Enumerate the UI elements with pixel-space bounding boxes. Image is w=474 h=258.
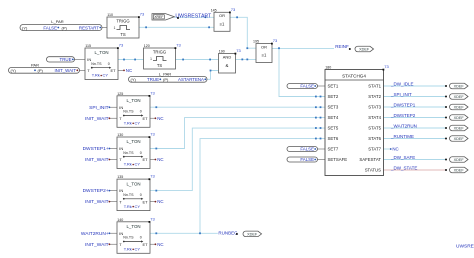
svg-text:INIT_WAIT: INIT_WAIT (85, 242, 109, 248)
svg-text:PAR: PAR (31, 62, 39, 67)
svg-text:NC: NC (392, 147, 398, 152)
svg-text:STAT7: STAT7 (368, 147, 381, 152)
svg-text:_DW_IDLE: _DW_IDLE (390, 81, 414, 86)
svg-text:135: 135 (117, 175, 123, 179)
svg-text:STAT3: STAT3 (368, 105, 381, 110)
svg-text:73: 73 (150, 174, 155, 179)
svg-text:73: 73 (176, 43, 181, 48)
svg-text:TRUE: TRUE (60, 57, 72, 62)
svg-text:INIT_WAIT: INIT_WAIT (85, 199, 109, 205)
svg-text:125: 125 (117, 92, 123, 96)
svg-text:(P): (P) (62, 25, 68, 30)
svg-text:SET5: SET5 (328, 126, 339, 131)
svg-text:73: 73 (150, 132, 155, 137)
svg-text:SPI_INIT: SPI_INIT (89, 105, 109, 111)
svg-text:NC: NC (126, 68, 132, 73)
svg-text:73: 73 (140, 12, 145, 17)
svg-text:STATUS: STATUS (365, 168, 381, 173)
svg-text:STATCHG4: STATCHG4 (342, 73, 366, 78)
svg-text:NC: NC (157, 116, 163, 121)
svg-text:190: 190 (219, 50, 225, 54)
svg-text:73: 73 (150, 216, 155, 221)
svg-text:73: 73 (231, 7, 236, 12)
svg-text:INIT_WAIT: INIT_WAIT (85, 157, 109, 163)
svg-text:115: 115 (85, 44, 91, 48)
svg-text:_WAIT2RUN: _WAIT2RUN (390, 123, 417, 128)
svg-text:STAT5: STAT5 (368, 126, 381, 131)
svg-text:DWSTEP2+: DWSTEP2+ (83, 188, 109, 194)
svg-text:INIT_WAIT: INIT_WAIT (85, 116, 109, 122)
svg-text:UWSRESTART: UWSRESTART (175, 14, 212, 20)
svg-text:_DWSTEP2: _DWSTEP2 (390, 113, 416, 118)
svg-text:RUNBEG: RUNBEG (218, 230, 238, 235)
svg-text:110: 110 (107, 13, 113, 17)
svg-text:UWSREINIT: UWSREINIT (456, 244, 474, 250)
svg-text:_RUNTIME: _RUNTIME (390, 134, 414, 139)
svg-text:WAIT2RUN+: WAIT2RUN+ (81, 231, 109, 237)
svg-text:_SPI_INIT: _SPI_INIT (390, 92, 412, 97)
svg-text:ASTARTENA: ASTARTENA (178, 77, 204, 82)
svg-text:STAT4: STAT4 (368, 115, 381, 120)
svg-text:STAT1: STAT1 (368, 84, 381, 89)
svg-text:(Y): (Y) (131, 77, 137, 82)
svg-text:SETSAFE: SETSAFE (328, 157, 348, 162)
svg-text:L_PAR: L_PAR (51, 19, 63, 24)
svg-text:NC: NC (157, 157, 163, 162)
svg-text:SET7: SET7 (328, 147, 339, 152)
svg-text:140: 140 (117, 218, 123, 222)
svg-text:120: 120 (144, 44, 150, 48)
svg-text:195: 195 (253, 40, 259, 44)
svg-text:(Y): (Y) (22, 25, 28, 30)
svg-text:73: 73 (273, 38, 278, 43)
svg-text:73: 73 (119, 43, 124, 48)
svg-text:SET3: SET3 (328, 105, 339, 110)
svg-text:XREF: XREF (154, 15, 163, 19)
svg-text:73: 73 (384, 64, 389, 69)
svg-text:_DW_SAFE: _DW_SAFE (390, 155, 415, 160)
svg-text:(P): (P) (163, 77, 169, 82)
svg-text:(Y): (Y) (11, 68, 17, 73)
svg-text:TRUE: TRUE (147, 77, 159, 82)
svg-text:RESTART: RESTART (79, 25, 99, 30)
svg-text:INIT_WAIT: INIT_WAIT (54, 68, 76, 73)
svg-text:SET2: SET2 (328, 94, 339, 99)
svg-text:SET1: SET1 (328, 84, 339, 89)
svg-text:_DWSTEP1: _DWSTEP1 (390, 102, 416, 107)
svg-text:_DW_STATE: _DW_STATE (390, 165, 417, 170)
svg-text:STAT6: STAT6 (368, 136, 381, 141)
svg-text:73: 73 (236, 48, 241, 53)
svg-text:FALSE: FALSE (43, 25, 57, 30)
svg-text:SET6: SET6 (328, 136, 339, 141)
svg-text:SET4: SET4 (328, 115, 339, 120)
svg-text:L_PAR: L_PAR (159, 71, 171, 76)
svg-text:NC: NC (157, 199, 163, 204)
svg-text:180: 180 (325, 66, 331, 70)
svg-text:SAFESTAT: SAFESTAT (359, 157, 381, 162)
svg-text:REINF: REINF (335, 44, 349, 49)
svg-text:130: 130 (117, 133, 123, 137)
svg-text:(P): (P) (38, 68, 44, 73)
svg-text:145: 145 (211, 8, 217, 12)
svg-text:73: 73 (150, 90, 155, 95)
svg-text:DWSTEP1+: DWSTEP1+ (83, 146, 109, 152)
svg-text:STAT2: STAT2 (368, 94, 381, 99)
svg-text:NC: NC (157, 242, 163, 247)
